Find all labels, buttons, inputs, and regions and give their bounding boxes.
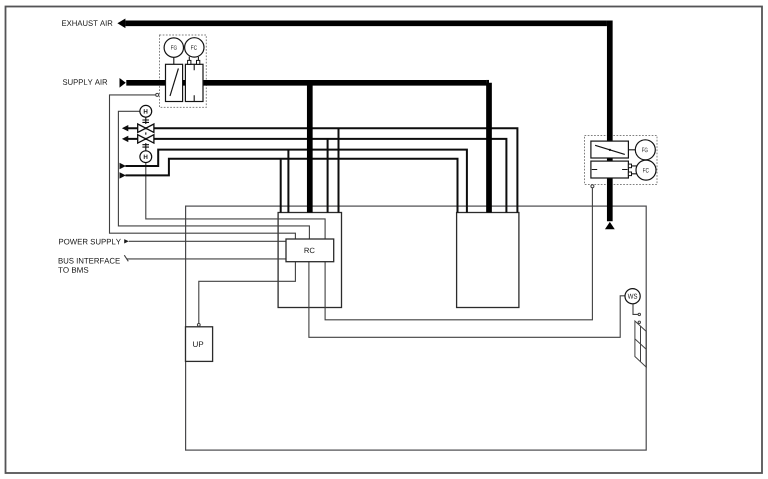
- connector squares to FC: [632, 166, 639, 174]
- pipe 1 branch to unit 1: [338, 128, 340, 212]
- pipe B arrow right: [120, 172, 126, 178]
- wire RC bottom to WS: [309, 262, 626, 338]
- UP port circle: [197, 324, 200, 327]
- exhaust duct end arrow: [605, 222, 615, 229]
- wire bus interface to RC left: [127, 258, 287, 260]
- power supply arrow: [124, 239, 129, 243]
- exhaust damper blade: [595, 145, 625, 154]
- damper pivot dot: [609, 149, 611, 151]
- exhaust air duct thick line: [125, 21, 609, 222]
- UP user panel box: [186, 327, 213, 362]
- induction unit 2 box: [457, 213, 519, 308]
- FC stems: [189, 57, 198, 61]
- valve stem H1-V1: [142, 117, 149, 124]
- pipe 2 arrow left: [122, 136, 128, 142]
- pipe A arrow right: [120, 163, 126, 169]
- FG stem: [173, 57, 175, 64]
- pipe 1 arrow left: [122, 125, 128, 131]
- wire power supply to RC left: [129, 240, 286, 242]
- FG circle (supply unit): [164, 38, 183, 57]
- exhaust air unit dashed box: [585, 136, 658, 185]
- wire WS to window contact: [633, 303, 638, 314]
- actuator H2: [140, 151, 152, 163]
- exhaust actuator rect: [591, 161, 629, 178]
- supply air label arrow: [120, 78, 126, 88]
- WS window switch circle: [625, 289, 640, 304]
- FC circle (supply unit): [185, 38, 204, 57]
- window symbol: [635, 321, 646, 367]
- exhaust unit port circle: [591, 185, 594, 188]
- actuator H1: [140, 105, 152, 117]
- window contact circles: [638, 313, 640, 315]
- terminal squares (exhaust unit): [628, 164, 631, 168]
- supply duct branch to unit 1: [307, 83, 313, 213]
- supply unit port circle: [156, 93, 159, 96]
- supply air unit dashed box: [160, 35, 207, 107]
- induction unit 1 box: [278, 213, 341, 308]
- connector damper-FG: [628, 149, 636, 151]
- wire H2 to RC top: [146, 163, 325, 239]
- actuator ticks: [592, 169, 628, 171]
- FC circle (exhaust unit): [636, 160, 656, 180]
- wire RC bottom to exhaust-unit port: [325, 188, 592, 320]
- terminal squares: [188, 60, 191, 64]
- FG circle (exhaust unit): [635, 140, 655, 160]
- room box: [186, 206, 647, 450]
- VAV sensor stubs: [193, 64, 195, 101]
- label POWER SUPPLY: [59, 239, 121, 245]
- label BUS INTERFACE: [59, 258, 120, 264]
- pipe A (upper return line): [125, 150, 467, 213]
- pipe A branch to unit 1: [287, 150, 289, 213]
- wire UP to RC bottom: [199, 262, 296, 324]
- pipe 2 (second valve line): [127, 139, 506, 213]
- wire supply-unit port to RC top: [110, 95, 296, 239]
- damper blade diagonal: [170, 68, 178, 96]
- wire H1 to RC top: [118, 111, 309, 239]
- valve stem V1-V2: [145, 132, 147, 134]
- exhaust air label arrow: [117, 19, 125, 29]
- pipe B branch to unit 1: [280, 159, 282, 213]
- label TO BMS: [58, 267, 88, 273]
- valve V1: [138, 124, 154, 143]
- label SUPPLY AIR: [63, 79, 107, 85]
- pipe 1 (top valve line): [127, 128, 517, 212]
- valve stem V2-H2: [142, 143, 149, 151]
- pipe 2 branch to unit 1: [327, 139, 329, 213]
- exhaust damper rect: [591, 141, 629, 158]
- pipe B (lower return line): [125, 159, 457, 213]
- supply air duct thick line: [126, 83, 489, 213]
- valve V2: [138, 135, 146, 143]
- VAV controller rect (supply unit): [185, 64, 203, 101]
- RC controller box: [286, 239, 334, 262]
- label EXHAUST AIR: [62, 20, 112, 26]
- bus interface slash: [124, 255, 128, 261]
- damper rect (supply unit): [166, 64, 183, 101]
